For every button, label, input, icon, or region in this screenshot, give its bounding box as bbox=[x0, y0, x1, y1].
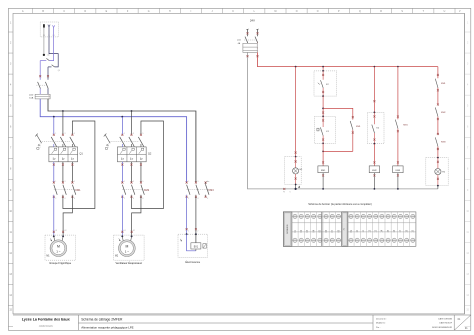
wire lamp H2 to rail bbox=[437, 186, 439, 189]
pin N bbox=[48, 25, 51, 37]
svg-text:Q0: Q0 bbox=[47, 55, 49, 57]
svg-text:J: J bbox=[212, 11, 213, 13]
supply stub L bbox=[246, 29, 249, 36]
svg-text:KM1: KM1 bbox=[403, 124, 408, 126]
svg-text:Par :: Par : bbox=[376, 326, 381, 329]
svg-text:1: 1 bbox=[124, 181, 125, 183]
title block frame bbox=[13, 315, 471, 330]
svg-text:4: 4 bbox=[65, 198, 66, 200]
svg-text:KM3: KM3 bbox=[396, 170, 401, 172]
svg-text:Q0: Q0 bbox=[58, 70, 60, 72]
svg-text:5: 5 bbox=[74, 133, 75, 135]
svg-text:PE: PE bbox=[283, 192, 285, 194]
svg-text:U2: U2 bbox=[65, 230, 67, 232]
contact KM1 aux bbox=[395, 120, 399, 133]
svg-text:KM1: KM1 bbox=[321, 170, 326, 172]
svg-text:KM2: KM2 bbox=[372, 170, 377, 172]
node neutral tap Q1 bbox=[53, 116, 55, 118]
wire red to lamp H1 bbox=[295, 67, 297, 157]
svg-text:DATE DESSIN: DATE DESSIN bbox=[438, 317, 452, 320]
svg-text:>: > bbox=[257, 50, 258, 53]
svg-text:KM2: KM2 bbox=[144, 189, 150, 192]
svg-text:I>: I> bbox=[121, 157, 124, 161]
svg-text:5: 5 bbox=[143, 181, 144, 183]
coil KM1 bbox=[318, 166, 328, 173]
svg-text:6: 6 bbox=[74, 198, 75, 200]
top ruler band ticks and zone letters bbox=[22, 8, 461, 13]
svg-text:KM1: KM1 bbox=[441, 83, 446, 85]
svg-text:Dessiné le :: Dessiné le : bbox=[376, 318, 387, 320]
node phase tap Q1 bbox=[62, 110, 64, 112]
node red bus KM3-col bbox=[397, 66, 399, 68]
svg-text:Alimentation maquette pédagogi: Alimentation maquette pédagogique LFE bbox=[81, 325, 133, 329]
svg-text:3: 3 bbox=[133, 133, 134, 135]
right ruler band inner line bbox=[464, 13, 466, 314]
svg-text:Schéma de câblage 2MFER: Schéma de câblage 2MFER bbox=[81, 317, 123, 321]
wire red to coil KM3 bbox=[397, 131, 399, 166]
lamp H1 bbox=[285, 156, 303, 186]
svg-text:6: 6 bbox=[207, 198, 208, 200]
wire red to KM1 aux bbox=[397, 67, 399, 120]
contactor KM3 bbox=[186, 181, 210, 200]
svg-text:O: O bbox=[317, 11, 319, 13]
svg-text:10A: 10A bbox=[29, 97, 33, 100]
svg-text:4: 4 bbox=[133, 198, 134, 200]
node red bus KM2-col bbox=[374, 66, 376, 68]
svg-text:KM1: KM1 bbox=[75, 189, 81, 192]
wire KM3 to electrovanne black bbox=[195, 197, 197, 234]
svg-text:JJ/MM DNAN: JJ/MM DNAN bbox=[39, 325, 53, 328]
svg-text:>: > bbox=[48, 97, 49, 100]
svg-text:1 ~: 1 ~ bbox=[56, 249, 61, 253]
circuit breaker Q2 with contactor KM2 power path bbox=[104, 111, 164, 236]
svg-text:KM2: KM2 bbox=[441, 112, 446, 114]
pin L1 bbox=[53, 25, 55, 37]
label EV terminal numbers bbox=[188, 230, 198, 232]
svg-text:1 ~: 1 ~ bbox=[125, 249, 130, 253]
supply stub N bbox=[256, 29, 259, 36]
svg-text:Modifié le :: Modifié le : bbox=[376, 323, 386, 325]
svg-text:1: 1 bbox=[55, 133, 56, 135]
motor M2 Ventilateur Evaporateur bbox=[114, 235, 145, 265]
svg-text:I>: I> bbox=[71, 157, 74, 161]
svg-text:DATE MODIF: DATE MODIF bbox=[439, 322, 452, 325]
svg-text:Q1: Q1 bbox=[79, 152, 83, 156]
svg-text:I>: I> bbox=[62, 157, 65, 161]
svg-text:2: 2 bbox=[55, 198, 56, 200]
circuit breaker Q11 bbox=[237, 37, 258, 53]
coil KM3 bbox=[393, 166, 403, 173]
svg-text:Q2: Q2 bbox=[148, 152, 152, 156]
svg-text:BORNIER: BORNIER bbox=[287, 224, 289, 234]
node bypass bottom bbox=[322, 151, 324, 153]
circuit breaker Q10 bbox=[29, 75, 50, 99]
wire phase bus black bbox=[48, 99, 196, 183]
svg-text:G: G bbox=[148, 11, 150, 13]
contact KM3 aux lamp bbox=[435, 137, 439, 157]
svg-text:KM3: KM3 bbox=[209, 189, 215, 192]
terminal strip X1 bornier bbox=[283, 212, 416, 246]
wire KM3 to electrovanne blue bbox=[186, 197, 188, 234]
wire coil KM3 to rail bbox=[397, 173, 399, 190]
contact K3 external box bbox=[367, 112, 384, 145]
node rail PE mark bbox=[283, 188, 285, 190]
svg-text:2: 2 bbox=[124, 198, 125, 200]
svg-text:2: 2 bbox=[188, 198, 189, 200]
wire N navy with isolator pole bbox=[48, 27, 60, 80]
svg-text:Schéma du bornier (la partie i: Schéma du bornier (la partie inférieure … bbox=[308, 202, 372, 206]
circuit breaker Q1 with contactor KM1 power path bbox=[35, 111, 95, 236]
wire red K2 to K1 bbox=[322, 96, 324, 116]
connector X0 supply box bbox=[40, 22, 58, 37]
svg-text:3: 3 bbox=[198, 181, 199, 183]
svg-text:U2: U2 bbox=[133, 230, 135, 232]
pin PE bbox=[43, 24, 45, 37]
contact KM2 aux lamp bbox=[435, 108, 439, 136]
svg-text:>: > bbox=[257, 47, 258, 50]
lamp H2 bbox=[426, 157, 448, 187]
svg-text:M: M bbox=[274, 11, 276, 13]
wire coil KM2 to rail bbox=[373, 173, 375, 190]
svg-text:24V: 24V bbox=[250, 19, 255, 23]
svg-text:1: 1 bbox=[124, 133, 125, 135]
svg-text:1: 1 bbox=[55, 181, 56, 183]
svg-text:NOM DESSINATEUR: NOM DESSINATEUR bbox=[432, 326, 453, 329]
wire control feed red bus bbox=[257, 52, 438, 66]
coil KM2 bbox=[369, 166, 379, 173]
contact KM1 self-hold bypass bbox=[323, 108, 354, 151]
svg-text:Lycée La Fontaine des Eaux: Lycée La Fontaine des Eaux bbox=[22, 317, 70, 321]
node phase tap Q2 bbox=[131, 110, 133, 112]
node neutral tap Q2 bbox=[121, 116, 123, 118]
svg-text:6: 6 bbox=[143, 198, 144, 200]
electrovanne EV1 box bbox=[178, 233, 208, 257]
svg-text:M: M bbox=[57, 245, 60, 249]
svg-text:3: 3 bbox=[65, 181, 66, 183]
svg-text:3: 3 bbox=[65, 133, 66, 135]
wire L1 violet with isolator pole bbox=[40, 28, 53, 80]
svg-text:KM1: KM1 bbox=[356, 126, 361, 128]
wire PE grey bbox=[43, 28, 45, 56]
svg-text:1: 1 bbox=[188, 181, 189, 183]
svg-text:N: N bbox=[290, 192, 291, 194]
svg-text:I>: I> bbox=[140, 157, 143, 161]
wire neutral bus blue bbox=[40, 99, 186, 183]
motor M1 Groupe Frigorifique bbox=[45, 235, 76, 265]
svg-text:4: 4 bbox=[198, 198, 199, 200]
title block texts bbox=[22, 317, 468, 330]
svg-text:I>: I> bbox=[130, 157, 133, 161]
svg-text:Groupe Frigorifique: Groupe Frigorifique bbox=[49, 261, 72, 265]
node red bus H1 bbox=[295, 66, 297, 68]
wire red H2 column bbox=[437, 67, 439, 79]
wire red to K3 bbox=[373, 67, 375, 113]
node bypass top bbox=[322, 108, 324, 110]
wire coil KM1 to rail bbox=[322, 173, 324, 190]
wire red to coil KM2 bbox=[373, 144, 375, 166]
svg-text:U1: U1 bbox=[124, 230, 126, 232]
contact KM1 aux lamp bbox=[435, 79, 439, 106]
contact K1 external box bbox=[314, 116, 335, 145]
svg-text:3: 3 bbox=[133, 181, 134, 183]
svg-text:I>: I> bbox=[53, 157, 56, 161]
svg-text:5: 5 bbox=[143, 133, 144, 135]
node red bus K-col bbox=[322, 66, 324, 68]
svg-text:>: > bbox=[48, 94, 49, 97]
svg-text:EV1: EV1 bbox=[194, 246, 199, 248]
contact K2 external box bbox=[314, 67, 337, 97]
wire red to coil KM1 bbox=[322, 143, 324, 166]
svg-text:U1: U1 bbox=[55, 230, 57, 232]
svg-text:KM3: KM3 bbox=[441, 142, 446, 144]
wire 24V return grey bbox=[247, 52, 438, 189]
svg-text:Q: Q bbox=[359, 11, 361, 13]
svg-text:5: 5 bbox=[74, 181, 75, 183]
wire lamp H1 to rail bbox=[283, 185, 300, 194]
svg-text:M: M bbox=[125, 245, 128, 249]
